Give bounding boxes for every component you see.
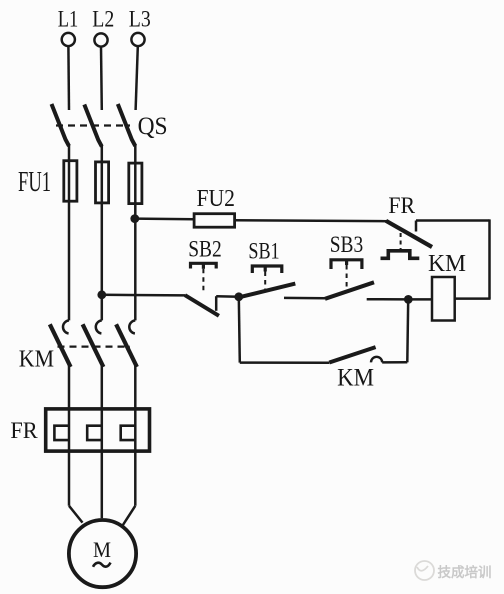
disconnect switch QS pole 2 <box>84 105 102 147</box>
disconnect switch QS pole 1 <box>52 104 70 146</box>
thermal relay FR heater box <box>46 409 150 451</box>
wire phase 2 to SB2 <box>102 294 186 297</box>
wire SB2 to node <box>216 295 239 298</box>
svg-text:FU2: FU2 <box>196 186 235 212</box>
svg-text:FR: FR <box>388 193 415 219</box>
contactor main contact KM pole 3 <box>116 320 137 367</box>
contactor coil KM <box>432 277 455 321</box>
svg-text:L2: L2 <box>92 6 114 32</box>
motor tilde symbol <box>93 563 111 567</box>
disconnect switch QS pole 3 <box>118 104 136 146</box>
FR heater element 3 <box>121 426 136 440</box>
contactor main contact KM pole 1 <box>50 320 71 367</box>
fuse FU2 <box>194 214 235 228</box>
svg-text:M: M <box>93 537 111 562</box>
svg-text:SB2: SB2 <box>188 236 222 261</box>
QS linkage dashed line <box>56 124 130 126</box>
push button SB1 (normally open start) <box>240 266 296 297</box>
wire L1 to QS <box>67 46 70 110</box>
node junction on phase 3 feeding control circuit <box>130 214 139 223</box>
terminal L3 <box>129 6 151 46</box>
wire slant phase 3 into motor <box>121 506 135 528</box>
wire KM pole 1 to motor <box>68 365 71 506</box>
svg-text:KM: KM <box>428 251 466 277</box>
svg-text:技成培训: 技成培训 <box>438 564 492 580</box>
wire FU2 to FR contact <box>235 219 387 222</box>
node junction on phase 2 feeding control circuit <box>97 290 106 299</box>
wire aux branch left <box>240 361 329 364</box>
node junction before coil <box>404 295 413 304</box>
wire slant phase 1 into motor <box>69 506 83 523</box>
fuse FU1 element 3 <box>129 163 142 204</box>
KM linkage dashed line <box>58 346 131 348</box>
node junction after SB2 <box>234 292 243 301</box>
wire SB1 to SB3 <box>284 297 325 300</box>
wire KM pole 3 to motor <box>134 365 137 506</box>
wire phase 3 to FU2 <box>135 217 194 220</box>
wire QS to KM pole 1 <box>68 145 71 320</box>
wire node to coil <box>408 298 432 301</box>
motor M circle <box>69 520 136 587</box>
thermal relay contact FR (normally closed) <box>381 221 433 259</box>
contactor auxiliary contact KM (self holding) <box>329 347 382 362</box>
wire L3 to QS <box>136 46 138 110</box>
fuse FU1 element 1 <box>64 161 77 202</box>
svg-text:L3: L3 <box>129 6 151 32</box>
svg-text:FU1: FU1 <box>18 166 51 198</box>
wire aux branch up to node <box>406 300 409 363</box>
push button SB2 (normally closed stop) <box>185 263 219 316</box>
wire QS to KM pole 2 <box>101 146 104 321</box>
wire node down to aux contact branch <box>239 297 240 363</box>
FR heater element 2 <box>87 426 102 440</box>
wire right rail down to coil <box>488 219 491 298</box>
push button SB3 (normally open) <box>325 260 374 299</box>
svg-text:KM: KM <box>19 347 54 373</box>
svg-text:FR: FR <box>10 418 38 444</box>
wire KM pole 2 to motor <box>101 365 104 518</box>
svg-text:L1: L1 <box>58 7 79 33</box>
FR heater element 1 <box>54 426 69 440</box>
svg-text:KM: KM <box>337 365 374 392</box>
wire L2 to QS <box>100 47 103 110</box>
svg-text:SB1: SB1 <box>248 239 279 264</box>
terminal L1 <box>58 7 79 47</box>
wire aux branch right <box>382 361 407 364</box>
fuse FU1 element 2 <box>96 162 109 203</box>
svg-text:SB3: SB3 <box>330 232 364 257</box>
svg-text:QS: QS <box>138 113 168 140</box>
terminal L2 <box>92 6 114 46</box>
wire SB3 to node <box>367 298 409 301</box>
wire QS to KM pole 3 <box>134 145 137 320</box>
watermark logo circle <box>415 561 434 580</box>
wire FR contact to right rail <box>416 219 490 222</box>
wire coil to right rail <box>455 297 491 300</box>
contactor main contact KM pole 2 <box>83 320 104 367</box>
